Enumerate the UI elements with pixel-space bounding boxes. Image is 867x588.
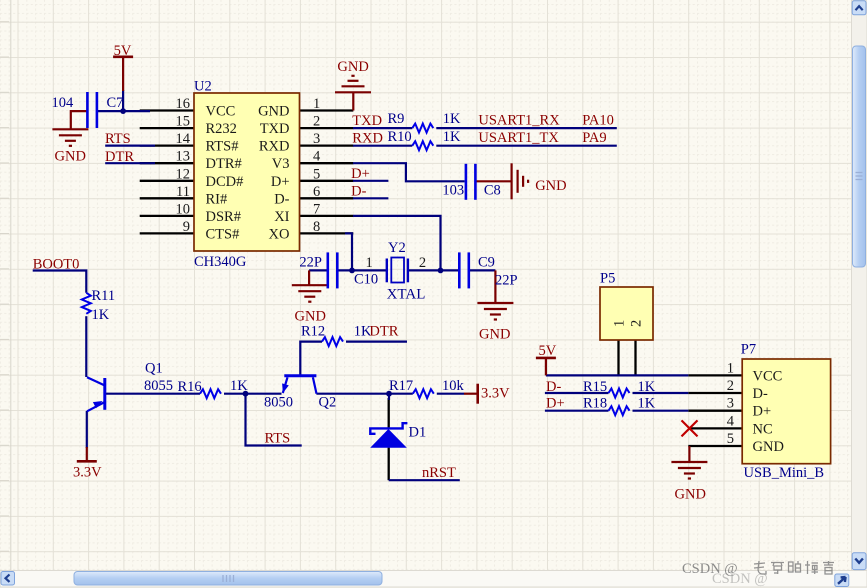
svg-text:BOOT0: BOOT0 — [33, 256, 80, 272]
svg-text:TXD: TXD — [260, 121, 290, 137]
svg-text:103: 103 — [442, 183, 464, 199]
svg-text:DTR#: DTR# — [206, 156, 242, 172]
svg-text:11: 11 — [176, 184, 190, 200]
svg-text:D+: D+ — [753, 404, 772, 420]
svg-text:RXD: RXD — [259, 139, 290, 155]
svg-text:1K: 1K — [443, 129, 461, 145]
svg-text:2: 2 — [629, 320, 645, 327]
svg-text:XI: XI — [274, 209, 289, 225]
svg-text:Q2: Q2 — [319, 395, 337, 411]
svg-text:NC: NC — [753, 421, 773, 437]
svg-text:1K: 1K — [638, 396, 656, 412]
svg-text:10: 10 — [176, 201, 191, 217]
svg-text:1K: 1K — [443, 111, 461, 127]
svg-text:3.3V: 3.3V — [73, 465, 102, 481]
svg-text:USB_Mini_B: USB_Mini_B — [744, 465, 825, 481]
svg-text:13: 13 — [176, 149, 191, 165]
svg-text:DTR: DTR — [369, 324, 398, 340]
svg-text:D-: D- — [351, 183, 366, 199]
svg-text:R11: R11 — [92, 288, 116, 304]
svg-text:D-: D- — [274, 191, 289, 207]
svg-text:5: 5 — [727, 431, 734, 447]
svg-text:6: 6 — [313, 184, 320, 200]
svg-text:2: 2 — [419, 255, 426, 271]
svg-text:2: 2 — [727, 378, 734, 394]
svg-text:4: 4 — [313, 149, 321, 165]
svg-text:RTS: RTS — [265, 431, 291, 447]
svg-text:USART1_RX: USART1_RX — [478, 113, 560, 129]
svg-text:8: 8 — [313, 219, 320, 235]
svg-text:P7: P7 — [741, 342, 756, 358]
svg-text:GND: GND — [535, 178, 566, 194]
svg-text:RI#: RI# — [206, 191, 228, 207]
svg-text:12: 12 — [176, 166, 191, 182]
svg-text:P5: P5 — [600, 271, 615, 287]
svg-text:D-: D- — [546, 379, 561, 395]
svg-text:22P: 22P — [495, 273, 518, 289]
svg-text:8055: 8055 — [144, 378, 173, 394]
svg-text:Y2: Y2 — [388, 240, 406, 256]
svg-text:PA10: PA10 — [582, 113, 614, 129]
svg-text:PA9: PA9 — [582, 130, 606, 146]
svg-text:DCD#: DCD# — [206, 174, 244, 190]
svg-text:1: 1 — [727, 360, 734, 376]
svg-text:5V: 5V — [114, 43, 132, 59]
svg-text:DSR#: DSR# — [206, 209, 241, 225]
svg-text:3: 3 — [727, 396, 734, 412]
svg-text:VCC: VCC — [206, 104, 236, 120]
svg-text:C10: C10 — [354, 272, 378, 288]
svg-text:7: 7 — [313, 201, 320, 217]
svg-text:R10: R10 — [388, 129, 412, 145]
svg-text:nRST: nRST — [422, 465, 456, 481]
svg-text:GND: GND — [479, 327, 510, 343]
svg-text:V3: V3 — [272, 156, 290, 172]
svg-text:104: 104 — [52, 95, 75, 111]
svg-text:GND: GND — [675, 487, 706, 503]
svg-text:14: 14 — [176, 131, 191, 147]
svg-text:1K: 1K — [230, 378, 248, 394]
svg-text:D1: D1 — [409, 425, 427, 441]
svg-text:C9: C9 — [478, 255, 495, 271]
svg-text:R9: R9 — [388, 111, 405, 127]
svg-text:4: 4 — [727, 413, 735, 429]
svg-text:C8: C8 — [484, 183, 501, 199]
svg-text:15: 15 — [176, 114, 191, 130]
svg-text:XO: XO — [269, 226, 290, 242]
svg-text:RTS: RTS — [105, 131, 131, 147]
svg-text:VCC: VCC — [753, 368, 783, 384]
svg-text:5: 5 — [313, 166, 320, 182]
svg-text:D+: D+ — [351, 166, 370, 182]
svg-text:R232: R232 — [206, 121, 237, 137]
svg-text:GND: GND — [258, 104, 289, 120]
svg-text:16: 16 — [176, 96, 191, 112]
svg-text:R16: R16 — [178, 379, 202, 395]
svg-text:5V: 5V — [539, 343, 557, 359]
svg-text:CSDN @: CSDN @ — [682, 561, 738, 577]
svg-text:GND: GND — [337, 59, 368, 75]
svg-text:1K: 1K — [92, 307, 110, 323]
svg-text:2: 2 — [313, 114, 320, 130]
svg-text:RTS#: RTS# — [206, 139, 239, 155]
svg-text:3: 3 — [313, 131, 320, 147]
svg-text:TXD: TXD — [352, 113, 382, 129]
svg-text:GND: GND — [753, 439, 784, 455]
svg-text:DTR: DTR — [105, 149, 134, 165]
svg-text:R12: R12 — [301, 324, 325, 340]
svg-text:D+: D+ — [546, 396, 565, 412]
svg-text:RXD: RXD — [352, 131, 383, 147]
svg-text:10k: 10k — [442, 378, 465, 394]
svg-text:22P: 22P — [299, 255, 322, 271]
svg-text:R17: R17 — [389, 378, 413, 394]
svg-text:1: 1 — [612, 320, 628, 327]
svg-text:D+: D+ — [271, 174, 290, 190]
svg-text:1K: 1K — [638, 379, 656, 395]
svg-text:1: 1 — [366, 255, 373, 271]
svg-text:3.3V: 3.3V — [481, 386, 510, 402]
svg-text:USART1_TX: USART1_TX — [478, 130, 559, 146]
svg-text:U2: U2 — [194, 79, 212, 95]
svg-text:R15: R15 — [583, 379, 607, 395]
svg-text:9: 9 — [183, 219, 190, 235]
svg-text:CH340G: CH340G — [194, 254, 247, 270]
svg-text:R18: R18 — [583, 396, 607, 412]
svg-text:C7: C7 — [107, 95, 124, 111]
svg-text:GND: GND — [295, 309, 326, 325]
svg-text:1: 1 — [313, 96, 320, 112]
svg-text:8050: 8050 — [264, 395, 293, 411]
svg-text:Q1: Q1 — [145, 361, 163, 377]
svg-text:XTAL: XTAL — [387, 287, 426, 303]
svg-text:D-: D- — [753, 386, 768, 402]
svg-text:CTS#: CTS# — [206, 226, 240, 242]
svg-text:GND: GND — [55, 149, 86, 165]
